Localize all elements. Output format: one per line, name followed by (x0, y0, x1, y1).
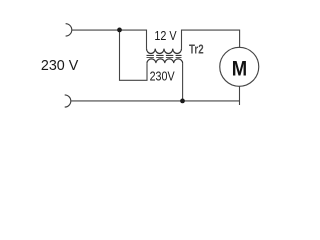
node B junction dot (180, 99, 185, 104)
node A junction dot (117, 28, 122, 33)
motor M1 circle (220, 47, 259, 86)
wire top right (transformer to motor) (182, 30, 240, 48)
transformer Tr2 core (dashed) (147, 54, 182, 56)
terminal (supply, top) (66, 24, 72, 36)
svg-text:230 V: 230 V (41, 57, 78, 74)
svg-text:Tr2: Tr2 (189, 41, 204, 56)
svg-text:M: M (232, 57, 247, 81)
wire top (supply to transformer primary lead) (72, 30, 147, 48)
wire from node A down to 230V winding (120, 30, 148, 80)
wire bottom (supply to motor) (71, 100, 240, 102)
svg-text:12 V: 12 V (154, 29, 177, 43)
terminal (supply, bottom) (65, 95, 71, 107)
wire motor bottom lead (239, 86, 241, 105)
transformer Tr2 secondary winding 12V (147, 49, 182, 54)
svg-text:230V: 230V (150, 69, 176, 83)
wire 230V winding right lead down (182, 63, 184, 101)
transformer Tr2 primary winding 230V (147, 59, 183, 63)
